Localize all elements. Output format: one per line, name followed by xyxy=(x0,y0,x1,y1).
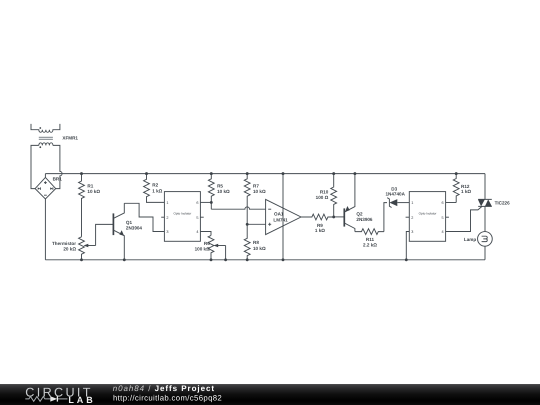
resistor R1 xyxy=(79,174,101,237)
svg-text:Q1: Q1 xyxy=(126,220,133,225)
svg-text:4: 4 xyxy=(441,230,443,234)
logo CIRCUIT LAB xyxy=(25,385,95,405)
svg-text:1 kΩ: 1 kΩ xyxy=(461,189,471,194)
wire top rail xyxy=(45,173,485,175)
svg-text:2: 2 xyxy=(166,216,168,220)
op-amp OA1 LM741 xyxy=(266,199,301,234)
svg-text:Q2: Q2 xyxy=(356,212,363,217)
wire Q1 collector staircase to opto1 pin 3 xyxy=(124,203,164,231)
svg-text:10 kΩ: 10 kΩ xyxy=(217,189,230,194)
svg-text:R5: R5 xyxy=(217,183,223,188)
svg-text:R7: R7 xyxy=(253,183,259,188)
node dots bottom rail xyxy=(80,258,408,261)
transistor Q1 xyxy=(113,203,142,259)
svg-text:R10: R10 xyxy=(320,189,329,194)
wire thermistor wiper to Q1 base xyxy=(96,224,114,245)
svg-text:R11: R11 xyxy=(366,237,375,242)
svg-text:4: 4 xyxy=(196,230,198,234)
resistor R5 xyxy=(208,174,230,210)
wire R9 node to Q2 base xyxy=(334,216,345,218)
svg-text:5: 5 xyxy=(441,216,443,220)
wire bridge plus riser xyxy=(44,174,46,178)
svg-text:20 kΩ: 20 kΩ xyxy=(63,246,76,251)
resistor R7 xyxy=(244,174,266,225)
thermistor 20k xyxy=(52,237,96,260)
svg-text:Thermistor: Thermistor xyxy=(52,241,76,246)
wire R7 node to op-amp non-inverting input xyxy=(247,223,265,225)
resistor R2 xyxy=(144,174,165,203)
svg-text:R2: R2 xyxy=(152,183,158,188)
svg-text:1: 1 xyxy=(166,201,168,205)
svg-text:3: 3 xyxy=(411,230,413,234)
svg-text:R1: R1 xyxy=(87,183,93,188)
zener diode D3 xyxy=(385,187,409,208)
wire opto1 pin6 to R5 xyxy=(200,201,211,203)
wire bridge minus lead xyxy=(44,199,46,260)
wire op-amp supply rail column xyxy=(282,174,284,260)
svg-text:LAB: LAB xyxy=(68,395,95,405)
svg-text:1 kΩ: 1 kΩ xyxy=(315,228,325,233)
svg-text:10 kΩ: 10 kΩ xyxy=(253,189,266,194)
svg-text:OA1: OA1 xyxy=(274,212,284,217)
lamp L1 xyxy=(464,232,492,247)
wire opto1 pin4 to R6 xyxy=(200,232,211,236)
wire opto2 pin6 to R12 xyxy=(446,202,457,204)
resistor R11 xyxy=(355,229,384,248)
svg-text:BR1: BR1 xyxy=(53,177,63,182)
resistor R12 xyxy=(453,174,471,203)
wire lamp to bottom rail xyxy=(484,246,486,260)
svg-text:http://circuitlab.com/c56pq82: http://circuitlab.com/c56pq82 xyxy=(113,393,222,402)
svg-text:6: 6 xyxy=(441,201,443,205)
svg-text:R6: R6 xyxy=(204,241,210,246)
resistor R9 xyxy=(301,214,334,233)
svg-text:Opto Isolator: Opto Isolator xyxy=(419,211,437,215)
svg-text:n0ah84 / Jeffs Project: n0ah84 / Jeffs Project xyxy=(113,384,215,393)
svg-text:XFMR1: XFMR1 xyxy=(62,136,78,141)
resistor R10 xyxy=(316,174,337,217)
svg-text:10 kΩ: 10 kΩ xyxy=(253,246,266,251)
wire R11 to D3 xyxy=(384,203,387,232)
svg-text:R12: R12 xyxy=(461,184,470,189)
svg-text:TIC226: TIC226 xyxy=(495,201,511,206)
svg-text:R8: R8 xyxy=(253,240,259,245)
svg-text:6: 6 xyxy=(196,201,198,205)
wire opto2 pin3 to bottom rail xyxy=(406,232,409,260)
svg-text:2N3906: 2N3906 xyxy=(356,217,373,222)
wire bottom rail xyxy=(45,259,485,261)
node dots mid xyxy=(210,201,335,226)
wire opto2 pin4 to triac gate xyxy=(446,206,482,231)
svg-text:2: 2 xyxy=(411,216,413,220)
svg-text:Opto Isolator: Opto Isolator xyxy=(174,211,192,215)
svg-text:3: 3 xyxy=(166,230,168,234)
bridge rectifier BR1 xyxy=(35,177,62,199)
svg-text:Lamp: Lamp xyxy=(464,237,476,242)
svg-text:5: 5 xyxy=(196,216,198,220)
svg-text:LM741: LM741 xyxy=(273,217,288,222)
wire secondary right lead with hop over top rail xyxy=(53,145,62,188)
svg-text:1N4740A: 1N4740A xyxy=(385,191,405,196)
transformer XFMR1 xyxy=(31,124,78,148)
wire secondary left lead xyxy=(31,145,39,188)
potentiometer R6 xyxy=(195,235,226,259)
node dots top rail xyxy=(80,172,458,175)
svg-text:2N3904: 2N3904 xyxy=(126,226,143,231)
resistor R8 xyxy=(244,224,266,259)
transistor Q2 xyxy=(344,174,373,232)
wire R5 node to op-amp inverting input with hop over R7 xyxy=(211,207,265,209)
opto-isolator U1 xyxy=(161,192,204,242)
triac TIC226 xyxy=(478,174,510,232)
svg-text:10 kΩ: 10 kΩ xyxy=(87,189,100,194)
svg-text:100 kΩ: 100 kΩ xyxy=(195,247,210,252)
opto-isolator U2 xyxy=(406,192,449,242)
svg-text:2.2 kΩ: 2.2 kΩ xyxy=(363,242,377,247)
svg-text:100 Ω: 100 Ω xyxy=(316,195,329,200)
svg-text:1 kΩ: 1 kΩ xyxy=(152,188,162,193)
svg-text:1: 1 xyxy=(411,201,413,205)
